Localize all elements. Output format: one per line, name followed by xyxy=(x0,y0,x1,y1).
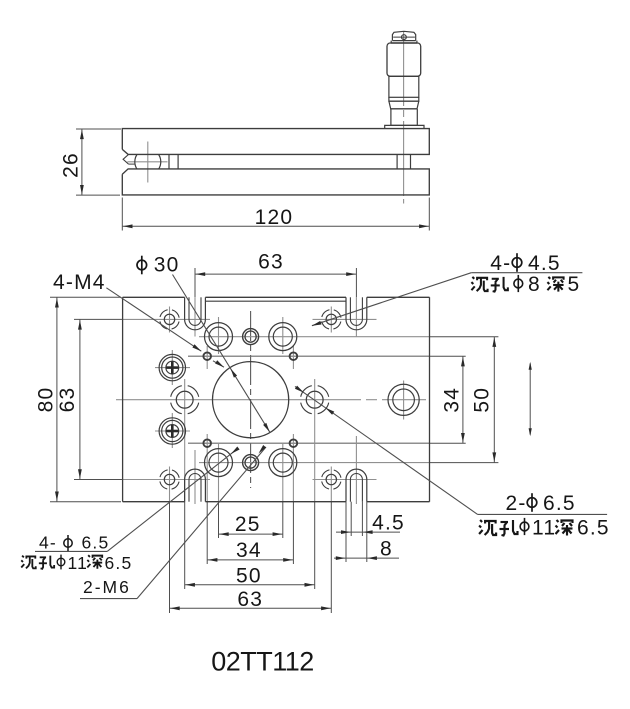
dimension 120 text xyxy=(255,206,294,229)
dimension 120 line with arrows xyxy=(122,224,429,228)
dimension 63 bottom text xyxy=(237,588,263,611)
svg-text:63: 63 xyxy=(237,588,263,611)
dimension 80 text xyxy=(35,387,58,413)
plan: threaded hole 4-M4 #2 xyxy=(290,352,298,360)
plan: threaded hole 4-M4 #3 xyxy=(203,439,211,447)
micrometer barrel band xyxy=(389,97,419,101)
slot extension lines below plate xyxy=(346,502,367,562)
svg-text:4-: 4- xyxy=(39,533,57,553)
plan: bottom-left slot centerline xyxy=(194,450,196,504)
svg-text:4-: 4- xyxy=(490,252,511,275)
plan: counterbored hole 4-phi6.5/phi11 #4 xyxy=(269,449,297,477)
svg-text:8: 8 xyxy=(528,273,541,296)
side view: bottom plate outline xyxy=(122,169,429,195)
svg-text:2-M6: 2-M6 xyxy=(83,577,131,597)
plan: plate top edge xyxy=(123,296,430,298)
label 4-phi4.5 text xyxy=(490,252,560,275)
plan: top hole-row line y336.7 (to 50-dim) xyxy=(199,336,498,338)
dimension 63 left line with arrows xyxy=(78,319,82,479)
side view: leadscrew horizontal centerline xyxy=(127,161,167,163)
dimension 8 text xyxy=(380,537,393,560)
plan: hole 4-phi4.5 with dashed phi8 counterbore #4 xyxy=(322,470,342,490)
dimension 26 extension lines xyxy=(76,129,121,195)
dimension 34 bottom line with arrows xyxy=(207,558,293,562)
leader 4-phi4.5 with shelf xyxy=(312,273,583,326)
plan: phi4.5 column x331.3 top crosshair xyxy=(330,307,332,333)
svg-text:34: 34 xyxy=(236,539,262,562)
plan: phi4.5 row line y479.5 left segment xyxy=(123,479,210,481)
micrometer mounting flange xyxy=(385,125,424,128)
plan: hole 4-phi4.5 with dashed phi8 counterbore #3 xyxy=(160,470,180,490)
plan: hole 2-phi6.5 with dashed phi11 counterbore #2 xyxy=(300,385,329,414)
svg-text:30: 30 xyxy=(154,254,180,277)
dimension 50 right text xyxy=(471,387,494,413)
svg-text:120: 120 xyxy=(255,206,294,229)
plan: bottom-left U slot xyxy=(185,469,206,502)
plan: phi4.5 row line y479.5 right segment xyxy=(313,479,377,481)
svg-text:6.5: 6.5 xyxy=(105,553,133,573)
side view: micrometer clamp block xyxy=(397,154,410,169)
svg-text:02TT112: 02TT112 xyxy=(211,647,314,677)
plan: threaded hole 2-M6 #1 xyxy=(243,329,259,345)
svg-text:34: 34 xyxy=(441,387,464,413)
label 2-M6 text xyxy=(83,577,131,597)
leader 2-phi6.5 with shelf xyxy=(295,386,607,515)
plan: screw crosshair v x172.3 bottom xyxy=(171,413,173,448)
plan: counterbored hole 4-phi6.5/phi11 #2 xyxy=(269,323,297,351)
plan: secondary top edge between slots xyxy=(205,300,346,302)
micrometer cap shoulder xyxy=(391,41,417,43)
dimension 34 right line with arrows xyxy=(461,356,465,443)
dimension 63 top text xyxy=(258,250,284,273)
plan: phi10 hole vertical crosshair xyxy=(403,381,405,420)
dimension 26 line with arrows xyxy=(80,129,84,195)
label 4-M4 text xyxy=(53,271,106,294)
plan: phi4.5 column x331.3 bottom + ext to 63-dim xyxy=(330,467,332,614)
dimension 80 line with arrows xyxy=(55,297,59,501)
plan: top-left slot centerline xyxy=(194,268,196,337)
svg-text:8: 8 xyxy=(380,537,393,560)
plan: threaded hole 4-M4 #1 xyxy=(203,352,211,360)
dimension 63 bottom line with arrows xyxy=(170,606,332,610)
svg-text:2-: 2- xyxy=(506,492,527,515)
leader 2-M6 with shelf xyxy=(80,445,266,599)
dimension 80 extension lines xyxy=(50,297,121,501)
plan: top-right slot centerline xyxy=(355,268,357,337)
plan: corner hole column x218.5 top crosshair xyxy=(218,317,220,354)
plan: phi4.5 row line y319.4 left segment xyxy=(123,318,210,320)
plan: center circle phi30 xyxy=(213,362,289,438)
dimension 50 right line with arrows xyxy=(492,337,496,463)
plan: hole 4-phi4.5 with dashed phi8 counterbore #2 xyxy=(322,310,342,330)
plan: threaded hole 2-M6 #2 xyxy=(243,455,259,471)
svg-text:4.5: 4.5 xyxy=(528,252,561,275)
plan: hole 4-phi4.5 with dashed phi8 counterbore #1 xyxy=(160,310,180,330)
plan: counterbored hole 4-phi6.5/phi11 #1 xyxy=(205,323,233,351)
plan: M4 column x293.4 bottom + ext to 34-dim xyxy=(292,434,294,564)
plan: phi6.5 column x184.7 crosshair + ext to 50-dim xyxy=(184,379,186,589)
plan: M4 column x207.2 bottom + ext to 34-dim xyxy=(206,434,208,564)
label counterbore phi8 depth5 text xyxy=(471,273,580,296)
label phi30 xyxy=(137,254,180,277)
plan: counterbored hole 4-phi6.5/phi11 #3 xyxy=(205,449,233,477)
plan: cap screw #1 xyxy=(159,354,185,380)
plan: bottom hole-row line y462.6 (to 50-dim) xyxy=(199,462,498,464)
micrometer knurled knob xyxy=(387,43,421,76)
plan: phi4.5 row line y319.4 right segment xyxy=(313,318,377,320)
plan: top-left U slot xyxy=(185,297,206,330)
title 02TT112 xyxy=(211,647,314,677)
plan: phi10 micrometer hole xyxy=(388,384,419,415)
side view: left wedge notch of slider xyxy=(123,155,135,165)
svg-text:6.5: 6.5 xyxy=(577,517,610,540)
dimension 34 bottom text xyxy=(236,539,262,562)
plan: cap screw #2 xyxy=(159,418,185,444)
svg-text:80: 80 xyxy=(35,387,58,413)
plan: screw crosshair h y431.0 xyxy=(155,430,190,432)
dimension 63 left extension lines xyxy=(74,319,123,479)
plan: plate left edge xyxy=(122,297,124,501)
label counterbore phi11 depth6.5 left text xyxy=(21,553,132,573)
svg-text:25: 25 xyxy=(235,513,261,536)
plan: travel range indicator arrow xyxy=(529,362,532,437)
plan: screw crosshair v x172.3 top xyxy=(171,350,173,385)
side view: leadscrew bearing circle (clipped to slot) xyxy=(135,149,161,175)
side view: micrometer vertical centerline xyxy=(403,31,405,204)
label counterbore phi11 depth6.5 right text xyxy=(479,517,610,540)
plan: corner hole column x282.8 bottom + ext to 25-dim xyxy=(282,444,284,538)
micrometer cap with screw slot xyxy=(392,31,415,40)
plan: plate right edge xyxy=(429,297,431,501)
dimension 63 top line with arrows xyxy=(195,272,356,276)
plan: main horizontal centerline xyxy=(116,399,426,401)
plan: M4 column x207.2 top crosshair xyxy=(206,346,208,369)
dimension 63 left text xyxy=(56,387,79,413)
plan: phi6.5 column x314.7 crosshair + ext to 50-dim xyxy=(314,379,316,589)
dimension 25 bottom line with arrows xyxy=(219,532,283,536)
plan: bottom-right U slot xyxy=(346,469,367,502)
plan: M4 row line y443.2 (to 34-dim) xyxy=(188,442,466,444)
label 2-phi6.5 text xyxy=(506,492,576,515)
side view: bearing nut lines xyxy=(169,154,178,169)
plan: threaded hole 4-M4 #4 xyxy=(290,439,298,447)
svg-text:50: 50 xyxy=(471,387,494,413)
leader phi30 diameter line xyxy=(173,275,270,433)
dimension 120 extension lines xyxy=(122,198,429,231)
label 4-phi6.5 text xyxy=(39,533,109,553)
leader 4-phi6.5 with shelf xyxy=(35,447,240,552)
plan: top-right U slot xyxy=(346,297,367,330)
plan: hole 2-phi6.5 with dashed phi11 counterbore #1 xyxy=(170,385,199,414)
svg-text:11: 11 xyxy=(532,517,556,540)
svg-text:4-M4: 4-M4 xyxy=(53,271,106,294)
dimension 8 line with outside arrows xyxy=(334,556,399,560)
leader 4-M4 xyxy=(106,288,224,367)
svg-text:50: 50 xyxy=(236,564,262,587)
svg-text:26: 26 xyxy=(60,152,83,178)
dimension 50 bottom text xyxy=(236,564,262,587)
plan: screw crosshair h y367.6 xyxy=(155,367,190,369)
svg-text:11: 11 xyxy=(68,553,89,573)
dimension 4.5 text xyxy=(372,511,405,534)
dimension 50 bottom line with arrows xyxy=(185,583,315,587)
plan: phi4.5 column x169.5 top crosshair xyxy=(169,307,171,333)
plan: bottom-right slot centerline xyxy=(355,436,357,504)
dimension 34 right text xyxy=(441,387,464,413)
dimension 4.5 line with outside arrows xyxy=(336,530,400,534)
plan: corner hole column x218.5 bottom + ext to 25-dim xyxy=(218,444,220,538)
plan: M4 column x293.4 top crosshair xyxy=(292,346,294,369)
micrometer stem xyxy=(391,109,417,126)
plan: corner hole column x282.8 top crosshair xyxy=(282,317,284,354)
plan: vertical centerline through circle and M6 holes xyxy=(250,311,252,488)
side view: top plate outline xyxy=(122,129,429,155)
svg-text:4.5: 4.5 xyxy=(372,511,405,534)
plan: M4 row line y356.2 (to 34-dim) xyxy=(188,355,466,357)
dimension 25 bottom text xyxy=(235,513,261,536)
micrometer barrel xyxy=(389,76,419,97)
svg-text:5: 5 xyxy=(568,273,581,296)
plan: plate bottom edge xyxy=(123,501,430,503)
plan: phi4.5 column x169.5 bottom + ext to 63-dim xyxy=(169,467,171,614)
dimension 26 text xyxy=(60,152,83,178)
svg-text:6.5: 6.5 xyxy=(82,533,110,553)
side view: leadscrew vertical centerline xyxy=(147,142,149,183)
micrometer taper section xyxy=(389,101,419,109)
svg-text:6.5: 6.5 xyxy=(543,492,576,515)
svg-text:63: 63 xyxy=(258,250,284,273)
svg-text:63: 63 xyxy=(56,387,79,413)
